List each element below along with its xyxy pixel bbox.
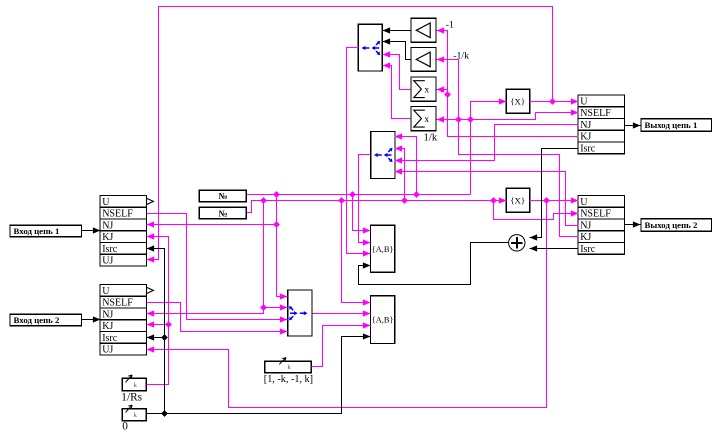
svg-text:1/Rs: 1/Rs [121,391,142,403]
summation block S1 (sum x) [411,77,436,101]
input port 2 label box: Вход цепь 2 [10,314,82,325]
wire: input port 1 to X1 [82,230,101,232]
svg-text:Выход цепь 1: Выход цепь 1 [645,120,698,130]
svg-text:[1, -k, -1, k]: [1, -k, -1, k] [264,374,313,385]
wire: k-net to S2 input and Y1 NSELF row [437,113,579,120]
output port 1 label box: Выход цепь 1 [641,119,712,132]
gain block 1/Rs [122,378,146,390]
wire: Y1 Isrc row down to summing junction [530,149,579,238]
multiport block X1 (circuit 1: U/NSELF/NJ/KJ/Isrc/UJ) [100,196,147,267]
wire: No2 horizontal line to {X}2 input [247,201,507,213]
svg-text:U: U [580,197,588,208]
svg-text:Выход цепь 2: Выход цепь 2 [645,220,698,230]
selector block U2 (middle, 4 inputs right, output left) [371,132,395,179]
svg-text:0: 0 [122,420,128,432]
svg-text:U: U [580,96,588,107]
svg-text:NSELF: NSELF [580,209,611,220]
wire: Y2 NJ row to mux U2 input 4 [395,172,579,226]
function block G2 {A,B} [371,296,395,344]
constant block No1 (node numbers circuit 1) [199,190,246,201]
wire: input port 2 to X2 [82,319,101,321]
wire: A2 output to mux U1 input 2 [383,42,411,60]
summation block S2 (sum x) [411,107,436,131]
svg-text:№: № [218,209,227,219]
svg-text:№: № [218,191,227,201]
wire: U1 net big loop - UJ of X1 up over top to {X}1 output net [147,7,553,260]
gain buffer A2 (-1/k) [411,48,436,72]
svg-text:{A,B}: {A,B} [372,245,394,254]
wire: mux U3 output to G2 input 2 [313,313,371,315]
multiport block X2 (circuit 2: U/NSELF/NJ/KJ/Isrc/UJ) [100,285,147,356]
wire: mux U2 output down to G1 input 2 [359,155,371,243]
wire: S2 output to mux U1 input 4 [383,66,411,119]
svg-text:KJ: KJ [580,232,591,243]
wire: No2 net branch down to G2 input 1 [342,201,371,303]
svg-text:Вход цепь 1: Вход цепь 1 [14,226,60,236]
function block F2 {X} [506,188,530,212]
svg-text:NJ: NJ [580,120,591,131]
gain block [1, -k, -1, k] [265,361,312,373]
wire: 0 net up to Isrc of X1 [147,249,165,414]
svg-text:KJ: KJ [580,132,591,143]
function block G1 {A,B} [371,225,395,272]
svg-text:x: x [424,86,429,96]
svg-text:UJ: UJ [102,256,113,267]
svg-text:NSELF: NSELF [102,298,133,309]
wire: Y1 NJ row to mux U2 input 3 [395,125,579,161]
input port 1 label box: Вход цепь 1 [10,225,82,236]
function block F1 {X} [506,89,530,113]
gain block 0 [122,409,146,421]
svg-text:KJ: KJ [102,232,113,243]
wire: NSELF of X1 down to mux U3 input 3 [147,214,288,320]
wire: 0 net branch to Isrc of X2 [147,337,165,339]
wire: summing junction output loop to G1 input 4 [359,243,509,285]
svg-text:NJ: NJ [580,220,591,231]
selector block U1 (top, 4 inputs right, output left) [358,24,382,71]
svg-text:NSELF: NSELF [580,108,611,119]
svg-text:{X}: {X} [510,195,525,205]
svg-text:U: U [102,197,110,208]
svg-text:NJ: NJ [102,220,113,231]
svg-text:NSELF: NSELF [102,209,133,220]
output stub of X1 U row [147,198,154,204]
wire: U2 net bottom loop to UJ of X2 [147,201,547,408]
wire: No1 net branch up to mux U2 input 1 [395,137,417,195]
svg-text:Isrc: Isrc [102,244,118,255]
wire: Y2 NJ row to output port 2 [625,224,641,226]
svg-text:UJ: UJ [102,345,113,356]
wire: branch to KJ of X2 [147,324,169,326]
wire: No2 net branch up to mux U2 input 2 [395,149,405,201]
wire: [1,-k,-1,k] output up to G2 input 3 [312,326,371,367]
svg-text:Вход цепь 2: Вход цепь 2 [14,315,61,325]
wire: No1 net vertical down to mux U3 input 1 [277,195,288,297]
svg-text:{A,B}: {A,B} [372,315,394,324]
constant block No2 (node numbers circuit 2) [199,207,246,218]
wire: S1 input tap [437,89,448,91]
summing junction (plus circle) [509,235,525,251]
wire: No2 net branch to Y2 NSELF row [494,201,579,220]
svg-text:Isrc: Isrc [102,333,118,344]
svg-text:-1: -1 [446,19,454,30]
output stub of X2 U row [147,287,154,293]
wire: 1/Rs output up to KJ rows of X1 and X2 [147,237,169,385]
multiport block Y1 (output circuit 1: U/NSELF/NJ/KJ/Isrc) [578,95,625,154]
wire: No1 horizontal line [247,194,471,196]
wire: -1/k branch to A2 input and down to Y2 KJ row [437,60,579,237]
wire: No2 net vertical down to NJ of X2 and mux U3 input 2 [147,201,264,314]
multiport block Y2 (output circuit 2: U/NSELF/NJ/KJ/Isrc) [578,196,625,255]
wire: 0-constant net to G2 input 4 [147,337,371,414]
wire: NJ of X1 horizontal [147,224,277,226]
svg-text:Isrc: Isrc [580,244,596,255]
wire: -1 branch to A1 input and down to Y1 KJ row [437,31,579,137]
svg-text:x: x [424,115,429,125]
svg-text:Isrc: Isrc [580,143,596,154]
selector block U3 (bottom, 4 inputs left, output right) [288,290,312,336]
wire: S1 output to mux U1 input 3 [383,55,411,90]
wire: Y1 NJ row to output port 1 [625,125,641,127]
wire: NSELF of X2 down to mux U3 input 4 [147,303,288,332]
wire: {X}1 input from No1 net vertical [471,102,507,195]
wire: mux U1 output down to G1 input 3 [347,48,371,254]
wire: No1 net branch down to G1 input 1 [353,195,371,231]
wire: {X}2 output to Y2 U row [530,200,579,202]
svg-text:{X}: {X} [510,96,525,106]
wire: A1 output to mux U1 input 1 [383,30,411,32]
wire: Y2 Isrc row to summing junction [530,248,579,250]
svg-text:U: U [102,286,110,297]
svg-text:1/k: 1/k [424,132,438,144]
svg-text:NJ: NJ [102,309,113,320]
output port 2 label box: Выход цепь 2 [641,219,712,232]
svg-text:KJ: KJ [102,321,113,332]
gain buffer A1 (-1) [411,18,436,42]
wire: {X}1 output to Y1 U row [530,101,579,103]
